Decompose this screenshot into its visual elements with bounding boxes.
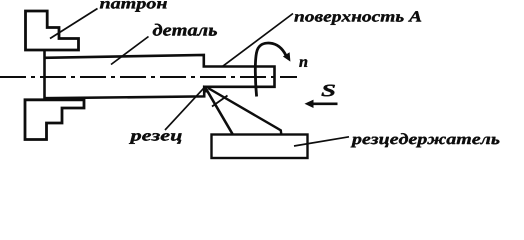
feed arrowhead xyxy=(305,100,314,108)
label резец xyxy=(129,133,182,144)
leader line to surface A label xyxy=(223,14,293,67)
rotation arrowhead xyxy=(283,52,291,61)
cutter (резец) left edge xyxy=(205,87,233,134)
leader line to workpiece label xyxy=(111,37,149,65)
label резцедержатель xyxy=(351,133,500,147)
label n xyxy=(299,59,307,67)
leader line to chuck label xyxy=(50,9,98,39)
chuck upper jaw (патрон) xyxy=(26,11,79,50)
workpiece left edge emerging from chuck xyxy=(43,50,46,101)
workpiece (деталь) stepped shaft outline xyxy=(45,55,275,98)
tool holder (резцедержатель) body xyxy=(212,135,308,159)
cutter right edge xyxy=(208,88,281,135)
label S xyxy=(322,85,335,97)
leader line to cutter label xyxy=(165,88,204,130)
label деталь xyxy=(153,24,217,36)
cutter insert line xyxy=(212,96,228,107)
label поверхность А xyxy=(294,11,421,24)
chuck lower jaw xyxy=(25,100,84,140)
leader line to tool holder label xyxy=(294,137,349,146)
feed arrow shaft (S) xyxy=(308,103,338,106)
cutter tip ink blob xyxy=(203,85,208,93)
centerline (rotation axis) xyxy=(0,76,297,78)
label патрон xyxy=(100,1,167,12)
rotation arrow arc (n) xyxy=(255,43,286,96)
